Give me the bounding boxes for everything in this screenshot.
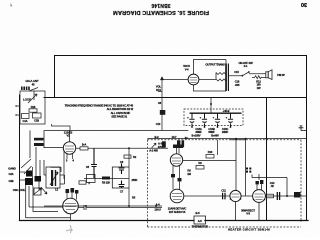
nested return wires [26, 176, 70, 218]
junction dots on heater line [286, 195, 288, 197]
resistor R12 [252, 76, 266, 79]
tube heater stub wires [71, 202, 260, 221]
big dashed printed-circuit boundary box [147, 140, 301, 227]
right frame wire [306, 56, 308, 221]
cathode wire [84, 178, 129, 180]
IF slug arrow [152, 143, 157, 148]
gang arrow [21, 159, 32, 174]
V3 top pin wire [177, 148, 180, 154]
V3 bottom components [171, 174, 182, 181]
screen resistor right of osc box [79, 181, 86, 184]
rect tube V6 [230, 190, 241, 201]
top bus left drop wire [54, 56, 56, 98]
IF amp tube V2 12BA6 [63, 198, 79, 214]
resistor R3 [87, 175, 96, 183]
det tube V3 [170, 154, 182, 166]
electrolytic C13A [189, 113, 194, 127]
V6 V7 pin dots [65, 198, 265, 213]
audio tube V4 [170, 189, 184, 203]
IF bus junctions [85, 205, 87, 207]
resistor R9 [196, 166, 204, 170]
trimmer C1A [22, 114, 30, 119]
V1 left pin wire down [63, 151, 65, 179]
external antenna symbol [299, 126, 307, 131]
electrolytic C13B [202, 113, 207, 127]
filter capacitor dashed box [184, 109, 243, 126]
alignment note text [65, 104, 134, 119]
electrolytic C13D [228, 113, 233, 127]
V1 bottom pin wires [67, 154, 73, 159]
filter bus [190, 112, 242, 114]
interlock plug [294, 192, 301, 198]
loop box output wire [45, 98, 70, 130]
oscillator coil box [46, 167, 60, 188]
gang wires [19, 160, 40, 186]
junction dot bus [266, 138, 268, 140]
cap C8 blob [160, 110, 166, 115]
volume control R7 [158, 77, 163, 130]
wire V1 to R1 [76, 147, 168, 149]
loop slug arrow [28, 94, 37, 103]
top bus wire [55, 55, 307, 57]
osc trimmer box [34, 188, 41, 195]
left bus wire [19, 95, 21, 221]
electrolytic C13C [215, 113, 220, 127]
coupling cap C11 [223, 193, 225, 200]
speaker [266, 70, 272, 80]
pencil mark [66, 225, 73, 233]
V5 cathode wire [162, 80, 226, 92]
scan speck [10, 4, 12, 7]
aux heater wire [252, 175, 287, 197]
output tube V5 50C5 [188, 74, 199, 85]
filter feed wire [210, 98, 212, 113]
loop antenna box [20, 91, 45, 124]
junction [128, 147, 130, 149]
terminal strip dots [246, 168, 251, 173]
IF B+ wire [44, 205, 162, 207]
capacitor C6 [119, 164, 125, 175]
coupling cap right of V2 [84, 205, 162, 210]
bottom bus wire [20, 220, 195, 222]
line cap [277, 192, 279, 200]
V1 top pin wire [69, 130, 71, 142]
mid wires [183, 140, 246, 196]
resistor R10 [206, 155, 214, 159]
AVC bus wire [45, 130, 189, 132]
B+ bus wire [44, 97, 307, 99]
antenna switch wire [29, 88, 38, 101]
title FIGURE 16 rotated [113, 2, 209, 15]
supply box left edge wire [266, 98, 268, 221]
2nd IF transformer windings [162, 140, 184, 147]
V2 output wire [78, 207, 84, 209]
tuning gang dark cluster [25, 171, 41, 186]
V5 plate wire [194, 60, 227, 75]
resistor R13 [267, 194, 274, 198]
grid resistor bars [34, 138, 44, 146]
loop antenna coil hatch [21, 87, 30, 91]
screen dropping wire [128, 148, 130, 206]
left bus stubs [16, 105, 19, 116]
osc wires [44, 160, 65, 184]
V2 input wire [29, 186, 63, 207]
AVC arrow to V2 [41, 187, 47, 194]
V2 top pin caps [66, 188, 79, 194]
osc coil winding [51, 170, 56, 186]
branch loop wire [112, 167, 129, 188]
grid wiring [30, 130, 63, 176]
capacitor C5 [91, 148, 97, 178]
V7 top components [256, 180, 264, 184]
V4 output wire [184, 195, 230, 197]
converter tube V1 12BE6 [63, 142, 75, 154]
cap C7 [119, 181, 125, 189]
IF output bus wire [147, 138, 306, 140]
trimmer C1B [33, 113, 42, 118]
bottom bus wire right [205, 220, 308, 222]
resistor R2 [124, 155, 131, 158]
rect tube V7 35W4 [253, 190, 266, 203]
rectifier wires [241, 195, 306, 197]
